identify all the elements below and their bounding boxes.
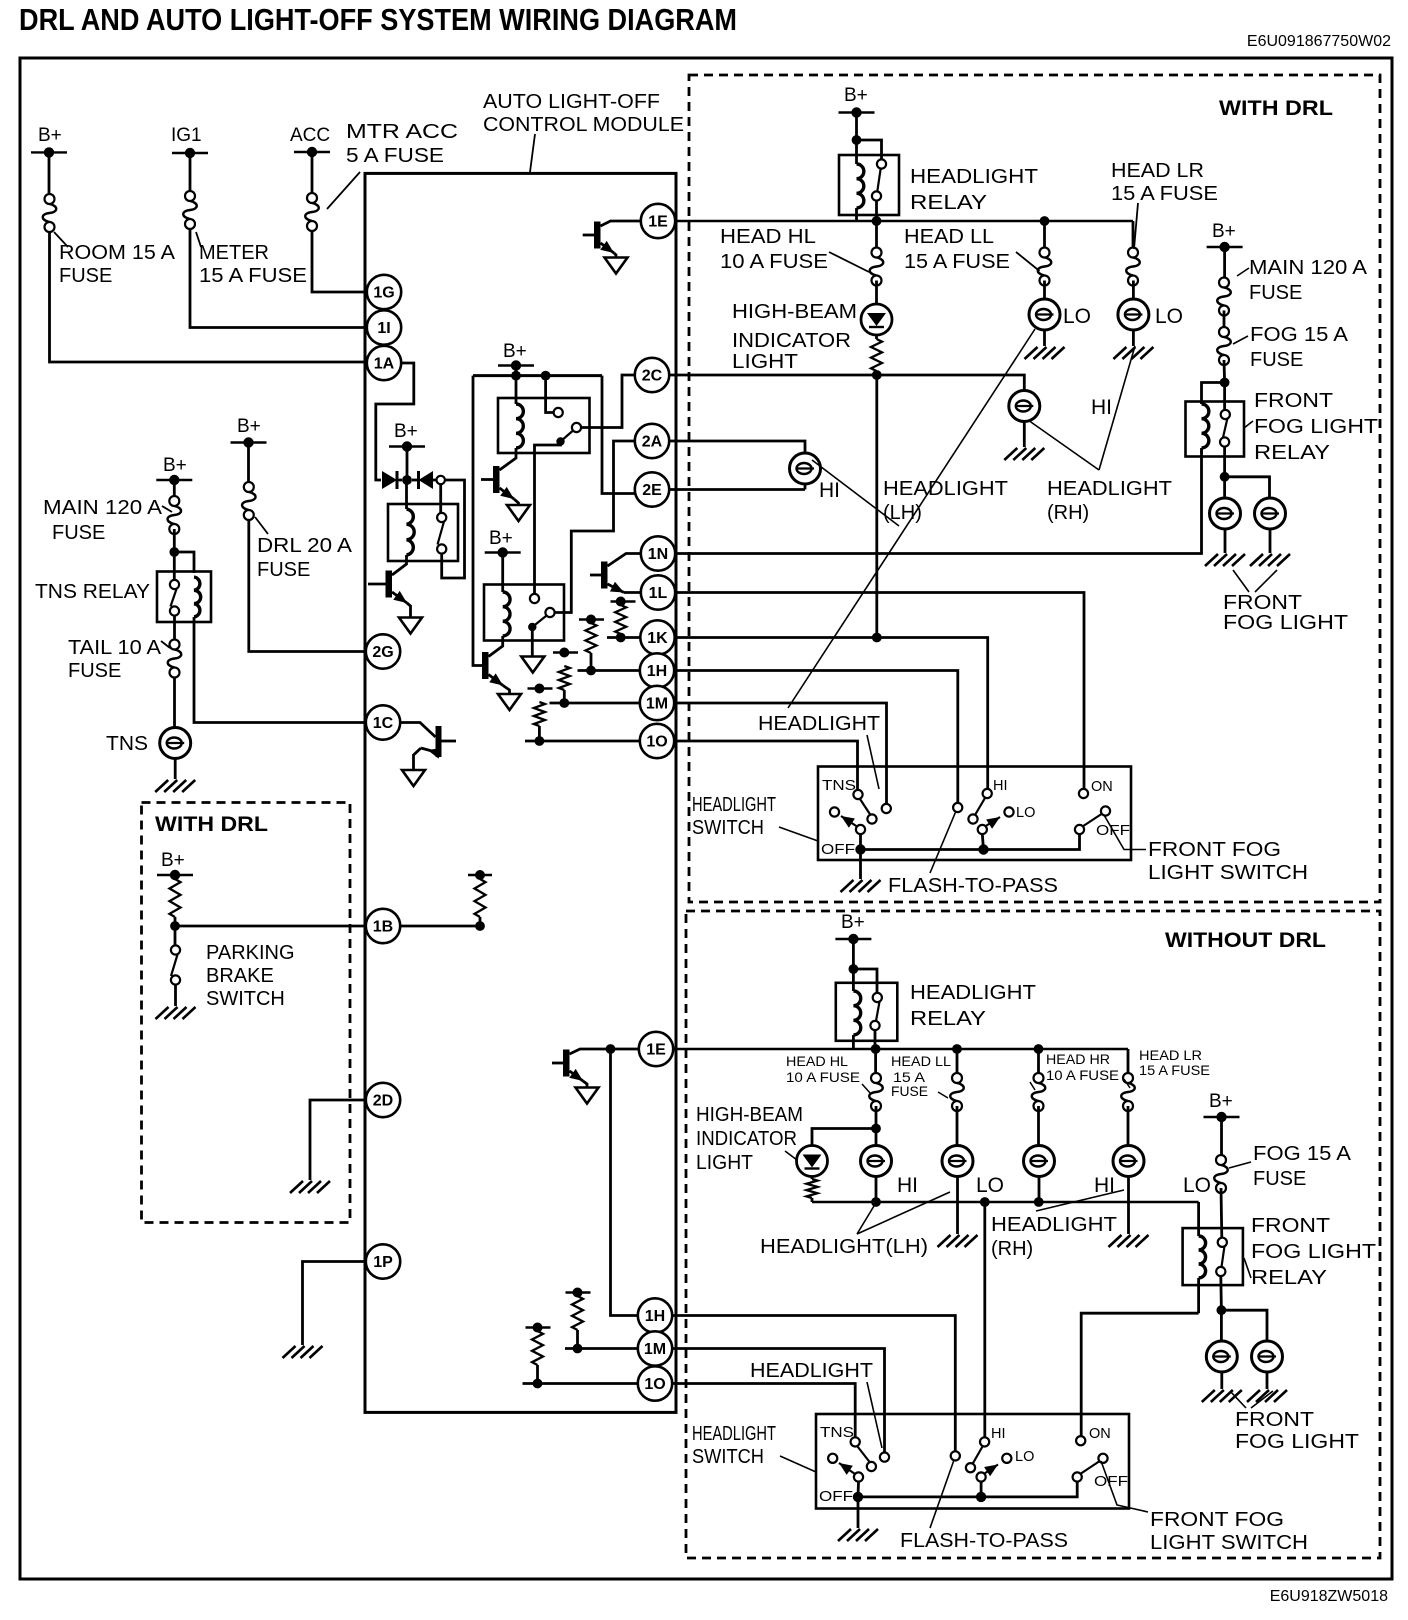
svg-text:1I: 1I [377, 320, 390, 337]
wire resistor stub to pin 1O [525, 740, 640, 743]
callout line main fuse left [162, 506, 172, 512]
svg-text:FLASH-TO-PASS: FLASH-TO-PASS [900, 1530, 1068, 1552]
diode D2 (cathode left) [412, 479, 418, 482]
wire main fuse to junction [173, 529, 176, 552]
pin 2E [635, 472, 669, 506]
switch FLASH-TO-PASS contact [953, 803, 962, 812]
svg-text:HEADLIGHT: HEADLIGHT [750, 1360, 873, 1382]
junction dot on lower 1E wire [606, 1044, 616, 1054]
switch 2 contact circles (middle group) [966, 1463, 975, 1472]
callout fog relay lower [1244, 1258, 1251, 1278]
wire B+ to fog fuse (WITHOUT DRL) [1220, 1117, 1223, 1155]
junction dot middle group on bus [982, 834, 983, 850]
svg-text:1K: 1K [647, 630, 668, 647]
TNS relay coil [194, 577, 201, 617]
lamp front fog (left, WITH DRL) [1223, 477, 1226, 498]
svg-text:RELAY: RELAY [910, 1008, 986, 1030]
wire pin 1N to front fog light relay coil [675, 450, 1202, 554]
relay FRONT FOG LIGHT RELAY box (WITHOUT DRL) [1183, 1228, 1243, 1285]
relay1 coil [405, 480, 408, 509]
wire to right fog lamp [1225, 477, 1270, 498]
resistor stub at pin 1K [611, 600, 636, 602]
wire junction to pin 1B [175, 925, 366, 928]
pin 1G [367, 275, 401, 309]
wire HI LH lamp to 2E wire [804, 484, 807, 490]
switch blade right group [1083, 814, 1102, 827]
ground triangle Q4 [605, 258, 628, 274]
svg-text:15 A FUSE: 15 A FUSE [199, 265, 307, 287]
wire pin 1A to diode pair [376, 363, 414, 480]
wire diode node down to relay1 upper contact [439, 484, 442, 513]
relay (module relay 2) box [498, 398, 590, 453]
diode D1 (anode left) [382, 471, 397, 489]
svg-text:10 A FUSE: 10 A FUSE [786, 1070, 860, 1085]
switch 2 FLASH-TO-PASS contact [951, 1451, 960, 1460]
svg-text:FRONT: FRONT [1254, 390, 1333, 412]
svg-text:RELAY: RELAY [1251, 1267, 1327, 1289]
svg-text:ACC: ACC [290, 125, 330, 146]
callout line head LR fuse [1134, 203, 1138, 249]
svg-text:1M: 1M [644, 1341, 666, 1358]
wire fog relay coil to ON contact [1081, 1313, 1198, 1437]
svg-text:1A: 1A [374, 356, 395, 373]
pin 1I [367, 310, 401, 344]
svg-text:LIGHT SWITCH: LIGHT SWITCH [1150, 1532, 1308, 1554]
svg-text:IG1: IG1 [171, 125, 202, 146]
svg-text:FUSE: FUSE [52, 522, 105, 544]
node B+ (headlight relay WITH DRL) [839, 111, 875, 113]
fuse HEAD HL 10 A FUSE [875, 225, 878, 247]
svg-text:OFF: OFF [821, 842, 855, 858]
svg-text:HEAD HL: HEAD HL [720, 226, 816, 248]
node B+ (fog feed WITH DRL) [1207, 246, 1243, 248]
fuse HEAD LL 15 A FUSE [1043, 225, 1046, 247]
wire lower pin 1H to flash-to-pass contact 2 [672, 1316, 955, 1452]
svg-text:B+: B+ [503, 341, 527, 362]
wire ACC to mtr acc fuse [311, 152, 314, 193]
switch blades (left group) [860, 799, 871, 815]
junction dot headlight relay feed [852, 135, 862, 145]
svg-text:RELAY: RELAY [910, 192, 987, 214]
pin 1A [367, 346, 401, 380]
wire relay2 moving contact to relay3 common [535, 442, 561, 595]
svg-text:TNS: TNS [822, 778, 856, 794]
callout line front fog light switch [1104, 815, 1146, 850]
box AUTO LIGHT-OFF CONTROL MODULE [365, 173, 676, 1412]
svg-text:CONTROL MODULE: CONTROL MODULE [483, 114, 684, 136]
svg-text:HEAD LR: HEAD LR [1111, 160, 1204, 182]
callout line from LO lamp to HEADLIGHT label [788, 329, 1035, 708]
svg-text:LIGHT SWITCH: LIGHT SWITCH [1148, 862, 1308, 884]
wire B+ to relay junction [852, 939, 855, 969]
wire pin 2C to HI lamp RH [669, 375, 1024, 391]
callout line fog relay [1244, 421, 1253, 428]
switch headlight-feed contact [882, 804, 891, 813]
wire fog fuse to fog relay (WITHOUT DRL) [1220, 1188, 1224, 1238]
relay FRONT FOG LIGHT RELAY box (WITH DRL) [1186, 402, 1245, 457]
lamp HI (LH, WITH DRL) [790, 453, 821, 484]
svg-text:HI: HI [819, 479, 840, 502]
svg-text:5 A FUSE: 5 A FUSE [346, 145, 444, 167]
ground triangle Q3 [498, 694, 521, 710]
svg-text:HI: HI [897, 1174, 918, 1197]
svg-text:2C: 2C [642, 368, 663, 385]
svg-text:FRONT: FRONT [1223, 592, 1302, 614]
callout line headlight switch feed [867, 735, 879, 789]
junction dot indicator branch [871, 1124, 881, 1134]
pin 1K [640, 620, 674, 654]
node B+ (DRL fuse feed) [231, 441, 267, 443]
wire pin 2E to HI lamp LH bottom [669, 488, 805, 491]
svg-text:(RH): (RH) [991, 1238, 1033, 1260]
ground below LO lamp (left) [1043, 330, 1046, 346]
switch 2 bus OFF to right [858, 1482, 1077, 1497]
callout head LR fuse small [1124, 1079, 1130, 1088]
pin 1N [641, 536, 675, 570]
ground below headlight switch 2 [838, 1529, 878, 1541]
svg-text:HEADLIGHT: HEADLIGHT [910, 166, 1038, 188]
callout line headlight RH lower [1036, 1190, 1124, 1211]
svg-text:DRL 20 A: DRL 20 A [257, 535, 353, 557]
lamp HI (RH, WITH DRL) [1009, 391, 1040, 422]
svg-text:HEAD LL: HEAD LL [904, 226, 994, 248]
node B+ (relay3 feed) [485, 551, 521, 553]
svg-text:1L: 1L [649, 585, 668, 602]
wire parking brake switch to ground [174, 985, 177, 1007]
transistor Q6 (pin 1C driver) [400, 723, 435, 738]
svg-text:HEADLIGHT: HEADLIGHT [910, 982, 1036, 1004]
wire TNS relay to tail fuse [173, 616, 176, 641]
lamp LO (RH filament, WITHOUT DRL) [1127, 1106, 1130, 1146]
wire pin 2A to HI lamp LH top [669, 441, 805, 454]
svg-text:2D: 2D [373, 1093, 393, 1110]
svg-text:B+: B+ [489, 528, 513, 549]
svg-text:1E: 1E [648, 214, 668, 231]
svg-text:2A: 2A [642, 434, 663, 451]
lamp common bus (WITHOUT DRL) [812, 1201, 1199, 1204]
svg-text:15 A FUSE: 15 A FUSE [904, 251, 1010, 273]
svg-text:LO: LO [1155, 305, 1183, 328]
wire resistor stub to pin 1H [578, 669, 640, 672]
callout line room fuse [54, 232, 68, 247]
lamp HI (RH filament, WITHOUT DRL) [1037, 1106, 1040, 1146]
svg-text:LIGHT: LIGHT [732, 351, 798, 373]
wire lower pin 1O to headlight switch 2 TNS contact [672, 1384, 855, 1438]
svg-text:HEAD LL: HEAD LL [891, 1054, 952, 1069]
svg-text:LO: LO [976, 1174, 1004, 1197]
transistor Q3 (drives relay3) [482, 652, 489, 679]
ground below right fog lamp [1269, 529, 1272, 553]
svg-text:FLASH-TO-PASS: FLASH-TO-PASS [888, 875, 1058, 897]
junction dot B+ rail at relay2 coil [511, 371, 521, 381]
resistor stub at pin 1O [528, 687, 553, 689]
ground below HI RH lamp [1023, 422, 1026, 448]
wire pin 1O to headlight switch TNS contact [674, 741, 858, 791]
svg-text:WITHOUT DRL: WITHOUT DRL [1165, 929, 1326, 952]
svg-text:10 A FUSE: 10 A FUSE [1046, 1068, 1119, 1083]
svg-text:HEADLIGHT: HEADLIGHT [758, 713, 880, 735]
relay1 contact [437, 513, 446, 522]
fuse MTR ACC 5 A FUSE [305, 193, 319, 231]
svg-text:LO: LO [1183, 1174, 1211, 1197]
callout head HL fuse small [862, 1084, 871, 1094]
lamp front fog (right, WITH DRL) [1255, 498, 1286, 529]
svg-text:TNS RELAY: TNS RELAY [35, 581, 150, 603]
svg-text:DRL AND AUTO LIGHT-OFF SYSTEM: DRL AND AUTO LIGHT-OFF SYSTEM WIRING DIA… [19, 2, 737, 37]
wire pin 1L to headlight switch ON contact [675, 593, 1084, 790]
wire resistor stub to lower pin 1M [565, 1347, 638, 1350]
pin 1H [640, 653, 674, 687]
wire relay common to bus [875, 201, 878, 221]
switch 2 blades (middle group) [973, 1447, 983, 1465]
lamp LO (head LL, WITH DRL) [1043, 281, 1046, 300]
svg-text:15 A: 15 A [893, 1070, 925, 1085]
node B+ (headlight relay WITHOUT DRL) [835, 938, 871, 940]
callout line flash-to-pass lower [930, 1460, 954, 1528]
svg-text:FUSE: FUSE [1249, 282, 1302, 304]
svg-text:B+: B+ [161, 850, 185, 871]
pin 1E [641, 204, 675, 238]
wire IG1 to meter fuse [189, 153, 192, 191]
ground for pin 1P [283, 1346, 323, 1358]
wire B+ rail right end down to 2E/2A [602, 376, 635, 494]
svg-text:10 A FUSE: 10 A FUSE [720, 251, 828, 273]
wire junction to TNS relay coil [174, 552, 194, 573]
svg-text:FRONT FOG: FRONT FOG [1148, 839, 1281, 861]
wire resistor stub to lower pin 1O [523, 1382, 638, 1385]
callout line headlight switch [779, 827, 818, 841]
wire pin 2D to ground [310, 1100, 366, 1180]
wire resistor stub to pin 1K [607, 636, 640, 639]
junction dot parking brake / 1B wire [170, 921, 180, 931]
svg-text:1B: 1B [373, 919, 393, 936]
svg-text:1N: 1N [648, 546, 668, 563]
node B+ (relay2 feed) [498, 364, 534, 366]
svg-text:FOG LIGHT: FOG LIGHT [1254, 416, 1378, 438]
wire 2A branch to 2E wire [614, 441, 635, 494]
wire lower pin 1M to headlight switch 2 contact [672, 1349, 884, 1453]
svg-text:15 A FUSE: 15 A FUSE [1139, 1063, 1210, 1078]
junction dot head HR fuse lower bus [1034, 1044, 1044, 1054]
wire bus riser to HI contact (switch 2) [983, 1202, 986, 1438]
svg-text:FUSE: FUSE [1253, 1168, 1306, 1190]
junction dot B+ rail at relay2 contact feed [541, 371, 551, 381]
TNS relay contact [173, 552, 176, 580]
svg-text:(LH): (LH) [883, 502, 922, 524]
wire indicator junction down to 1K wire [875, 375, 878, 638]
wire pin 1M to headlight switch contact [674, 703, 887, 805]
dashed box WITHOUT DRL [686, 911, 1380, 1558]
node B+ (parking brake) [157, 874, 193, 876]
switch 2 blade right group [1080, 1462, 1099, 1475]
svg-text:INDICATOR: INDICATOR [696, 1128, 797, 1150]
node B+ (fog feed WITHOUT DRL) [1204, 1116, 1240, 1118]
switch 2 blades (left group) [858, 1447, 871, 1463]
callout line flash-to-pass [930, 811, 956, 873]
lamp front fog (left, WITHOUT DRL) [1220, 1310, 1223, 1341]
resistor below high-beam indicator [875, 335, 878, 339]
junction dot RH headlight riser [980, 1197, 990, 1207]
svg-text:FOG 15 A: FOG 15 A [1250, 324, 1349, 346]
ground triangle Q6 [402, 770, 425, 786]
fog relay contacts (WITHOUT DRL) [1218, 1238, 1227, 1247]
svg-text:WITH DRL: WITH DRL [155, 813, 268, 836]
svg-text:B+: B+ [394, 421, 418, 442]
switch 2 contact circles (left group) [867, 1462, 876, 1471]
wire 2E junction down to relay3 net [555, 494, 614, 613]
svg-text:HEADLIGHT: HEADLIGHT [991, 1214, 1117, 1236]
lamp LO (LH filament, WITHOUT DRL) [956, 1106, 959, 1146]
ground triangle Q1 [399, 618, 422, 634]
fuse MAIN 120 A FUSE (left) [168, 496, 182, 534]
node B+ (main fuse feed) [156, 479, 192, 481]
callout line main fuse right [1237, 268, 1249, 276]
svg-text:ROOM 15 A: ROOM 15 A [59, 242, 176, 264]
node B+ (room fuse feed) [31, 151, 67, 153]
fog relay coil (WITHOUT DRL) [1197, 1202, 1200, 1236]
fog relay contacts (WITH DRL) [1223, 383, 1226, 411]
svg-text:MAIN 120 A: MAIN 120 A [43, 497, 163, 519]
ground below right fog lamp (WITHOUT DRL) [1266, 1372, 1269, 1389]
ground below left fog lamp [1224, 529, 1227, 553]
wire B+ to room fuse [48, 152, 51, 194]
svg-text:RELAY: RELAY [1254, 442, 1330, 464]
svg-text:HIGH-BEAM: HIGH-BEAM [696, 1104, 803, 1126]
wire pin 1K to headlight switch HI contact [675, 638, 988, 790]
wire HI LH lamp to bus [875, 1177, 878, 1203]
pin 1P [366, 1244, 400, 1278]
svg-text:FOG LIGHT: FOG LIGHT [1251, 1241, 1376, 1263]
svg-text:LO: LO [1016, 805, 1035, 821]
wire fog relay common to fog lamps [1223, 447, 1226, 477]
switch PARKING BRAKE SWITCH [174, 930, 177, 946]
pin 1B [366, 909, 400, 943]
svg-text:METER: METER [199, 242, 269, 264]
wire to relay fixed contact (WITHOUT DRL) [853, 969, 877, 993]
transistor Q5 (pins 1N/1L) [590, 574, 601, 577]
fuse HEAD LL 15 A FUSE (WITHOUT DRL) [956, 1049, 959, 1073]
wire diode node to relay1 lower contact [442, 480, 465, 578]
junction dot head LL fuse on bus [1040, 216, 1050, 226]
wire LO LH lamp to ground [956, 1177, 959, 1235]
svg-text:TNS: TNS [106, 733, 148, 755]
wire pin 1E to WITH DRL box (relay bus) [675, 220, 1133, 223]
junction dot above TNS relay [169, 547, 179, 557]
Q6 emitter to ground [421, 748, 436, 752]
svg-text:HEAD LR: HEAD LR [1139, 1048, 1202, 1063]
junction dot fog lamps [1220, 472, 1230, 482]
junction dot fog lamps (WITHOUT DRL) [1217, 1305, 1227, 1315]
junction dot indicator on 2C wire [875, 371, 878, 375]
svg-text:FOG LIGHT: FOG LIGHT [1223, 612, 1348, 634]
relay2 contacts [554, 408, 563, 417]
svg-text:15 A FUSE: 15 A FUSE [1111, 183, 1218, 205]
wire junction to fog relay coil [1202, 383, 1225, 405]
callout lines headlight RH [1028, 420, 1099, 470]
relay HEADLIGHT RELAY box (WITHOUT DRL) [836, 983, 898, 1041]
svg-text:INDICATOR: INDICATOR [732, 330, 851, 352]
relay2 coil [515, 376, 518, 404]
svg-text:HEAD HL: HEAD HL [786, 1054, 849, 1069]
headlight relay contacts (WITH DRL) [877, 159, 886, 168]
wire HI RH lamp to bus [1038, 1177, 1041, 1203]
fuse DRL 20 A FUSE [242, 482, 256, 520]
svg-text:HEADLIGHT: HEADLIGHT [692, 794, 776, 816]
pin 1L [641, 575, 675, 609]
svg-text:1O: 1O [644, 1376, 665, 1393]
fuse HEAD HL 10 A FUSE (WITHOUT DRL) [874, 1049, 877, 1073]
pin 1H (lower) [638, 1298, 672, 1332]
callout lines headlight LH lower [857, 1206, 874, 1234]
fuse FOG 15 A FUSE (WITHOUT DRL) [1214, 1155, 1228, 1193]
ground below parking brake switch [156, 1007, 196, 1019]
wire tail fuse to TNS lamp [173, 677, 176, 728]
ground triangle relay3 [521, 657, 544, 673]
wire B+ rail left end down to Q3 base [473, 376, 482, 666]
junction dot relay output on bus [872, 216, 882, 226]
svg-text:MAIN 120 A: MAIN 120 A [1249, 257, 1368, 279]
svg-text:E6U091867750W02: E6U091867750W02 [1247, 33, 1391, 50]
svg-text:LO: LO [1015, 1449, 1034, 1465]
wire pin 1P to ground [303, 1262, 366, 1346]
wire resistor stub to pin 1M [550, 702, 640, 705]
wire DRL fuse to pin 2G [249, 520, 366, 652]
lamp HI (LH filament, WITHOUT DRL) [875, 1129, 878, 1146]
wire LO RH lamp to ground [1127, 1177, 1130, 1235]
node circle after diodes [437, 476, 445, 484]
svg-text:SWITCH: SWITCH [692, 817, 764, 839]
svg-text:LO: LO [1063, 305, 1091, 328]
switch 2 headlight-feed contact [880, 1453, 889, 1462]
callout line headlight switch feed lower [867, 1382, 882, 1448]
svg-text:2E: 2E [642, 482, 662, 499]
wire relay3 moving contact to ground [531, 627, 534, 657]
svg-text:FUSE: FUSE [1250, 349, 1303, 371]
pin 1O (lower) [638, 1366, 672, 1400]
svg-text:HEAD HR: HEAD HR [1046, 1052, 1110, 1067]
svg-text:1P: 1P [373, 1254, 393, 1271]
svg-text:HEADLIGHT(LH): HEADLIGHT(LH) [760, 1236, 928, 1258]
callout fog fuse lower [1229, 1162, 1251, 1168]
wire pin 1E (lower) bus to WITHOUT DRL relay [673, 1048, 1128, 1051]
wire junction to high-beam LED [812, 1129, 876, 1147]
dashed box WITH DRL (parking brake) [142, 803, 351, 1223]
callout line head LL fuse [1016, 252, 1040, 271]
wire TNS relay coil to pin 1C [194, 617, 366, 723]
svg-text:FUSE: FUSE [68, 660, 121, 682]
wire B+ to headlight relay [855, 113, 858, 141]
ground below left fog lamp (WITHOUT DRL) [1220, 1372, 1223, 1389]
svg-text:1C: 1C [373, 715, 394, 732]
resistor stub at pin 1H [579, 618, 604, 620]
wire to right fog lamp (WITHOUT DRL) [1221, 1310, 1267, 1341]
node B+ (diode junction) [389, 445, 425, 447]
transistor Q1 (drives relay1) [368, 583, 386, 586]
svg-text:LIGHT: LIGHT [696, 1152, 753, 1174]
transistor Q4 (pin 1E driver) [583, 234, 594, 237]
svg-text:FRONT: FRONT [1251, 1215, 1330, 1237]
callout high-beam indicator [785, 1151, 797, 1160]
svg-text:FUSE: FUSE [891, 1084, 928, 1099]
wire Q6 collector [442, 740, 457, 743]
callout head HR fuse small [1030, 1082, 1035, 1090]
junction dot diode/B+ [402, 475, 412, 485]
callout line DRL fuse [255, 517, 268, 534]
relay TNS RELAY box [157, 572, 211, 623]
svg-text:2G: 2G [372, 644, 393, 661]
svg-text:B+: B+ [237, 416, 261, 437]
svg-text:B+: B+ [841, 912, 865, 933]
